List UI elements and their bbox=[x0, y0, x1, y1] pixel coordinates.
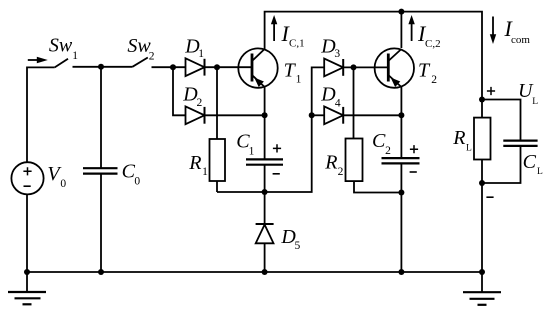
svg-text:C,2: C,2 bbox=[425, 38, 441, 50]
svg-text:D: D bbox=[320, 84, 336, 106]
node junction C0 tap bbox=[98, 64, 104, 70]
capacitor C1 bbox=[246, 158, 283, 160]
transistor T1 collector bbox=[252, 49, 265, 61]
wire riser x=353.5 to R2 bbox=[353, 67, 355, 138]
wire riser x=173 down to D2 row bbox=[173, 67, 186, 115]
node junction rail RL bbox=[479, 269, 485, 275]
svg-text:L: L bbox=[537, 167, 543, 177]
node junction D2 / T1 emitter bbox=[262, 112, 268, 118]
transistor T1 circle bbox=[238, 48, 277, 87]
arrow input current bbox=[28, 59, 38, 61]
plus C2 bbox=[410, 145, 418, 153]
node junction top rail / T2 collector bbox=[398, 9, 404, 15]
resistor RL bbox=[474, 118, 491, 160]
node junction R2 / C2 bottom bbox=[398, 190, 404, 196]
node junction rail D5 bbox=[262, 269, 268, 275]
svg-text:C: C bbox=[523, 151, 537, 173]
svg-text:1: 1 bbox=[202, 166, 208, 178]
wire R2 bottom stub bbox=[354, 181, 401, 192]
wire D4 anode from riser bbox=[312, 114, 325, 116]
wire R1 bottom stub bbox=[216, 181, 218, 192]
wire T2 collector riser bbox=[400, 12, 402, 48]
transistor T2 collector bbox=[388, 49, 401, 61]
ground left bbox=[26, 272, 28, 292]
svg-text:C,1: C,1 bbox=[289, 37, 305, 49]
node junction D4 / T2 emitter bbox=[398, 112, 404, 118]
wire Sw2 right to D1 bbox=[152, 66, 186, 68]
node junction rail C2 bbox=[398, 269, 404, 275]
svg-text:2: 2 bbox=[197, 97, 203, 109]
node junction D4 anode tap bbox=[309, 112, 315, 118]
wire D3 cathode to T2 base bbox=[343, 66, 388, 68]
transistor T1 base bar bbox=[251, 54, 254, 82]
node junction D1/R1 bbox=[214, 64, 220, 70]
transistor T1 emitter bbox=[252, 75, 265, 87]
svg-text:1: 1 bbox=[198, 48, 204, 60]
wire C2 bottom to rail bbox=[400, 163, 402, 272]
node junction RL bottom / CL bbox=[479, 180, 485, 186]
wire T2 emitter down to C2 bbox=[400, 87, 402, 158]
wire V0 bottom bbox=[26, 194, 28, 272]
svg-text:R: R bbox=[188, 152, 201, 174]
node junction RL top / CL bbox=[479, 97, 485, 103]
minus C1 bbox=[273, 173, 280, 175]
svg-text:L: L bbox=[466, 143, 472, 153]
svg-text:4: 4 bbox=[335, 98, 341, 110]
diode D3 bbox=[324, 59, 343, 77]
node junction rail V0 bbox=[24, 269, 30, 275]
svg-text:0: 0 bbox=[60, 178, 66, 190]
wire V0 top to Sw1 bbox=[27, 67, 55, 162]
wire C1 bottom to node bbox=[264, 165, 266, 192]
svg-text:R: R bbox=[324, 151, 337, 173]
minus C2 bbox=[410, 171, 417, 173]
capacitor C0 bbox=[100, 67, 102, 168]
wire D2 cathode to T1 emitter line bbox=[205, 114, 265, 116]
arrow IC2 bbox=[411, 23, 413, 42]
wire riser x=217 to R1 bbox=[216, 67, 218, 139]
svg-text:C: C bbox=[372, 130, 386, 152]
svg-text:1: 1 bbox=[296, 74, 302, 86]
wire D1 cathode to T1 base bbox=[205, 66, 253, 68]
capacitor C2 bbox=[382, 157, 420, 159]
wire Sw1 right to Sw2 bbox=[73, 66, 133, 68]
transistor T2 emitter arrow bbox=[391, 78, 401, 88]
diode D5 bbox=[256, 223, 274, 225]
diode D2 bbox=[186, 106, 205, 124]
svg-text:Sw: Sw bbox=[127, 35, 151, 57]
svg-text:Sw: Sw bbox=[49, 35, 73, 57]
svg-text:0: 0 bbox=[134, 176, 140, 188]
svg-text:T: T bbox=[418, 59, 431, 81]
minus V0 bbox=[24, 185, 31, 187]
node junction C1 bottom / D5 bbox=[262, 189, 268, 195]
plus V0 bbox=[23, 167, 31, 175]
wire top rail bbox=[265, 12, 482, 118]
diode D1 bbox=[186, 58, 205, 76]
wire RL bottom to rail bbox=[481, 160, 483, 273]
node junction rail C0 bbox=[98, 269, 104, 275]
svg-text:5: 5 bbox=[295, 240, 301, 252]
wire D5 anode to bottom rail bbox=[264, 243, 266, 272]
wire bottom bus y=192 to riser x=311.7 bbox=[217, 67, 324, 192]
capacitor CL bbox=[503, 140, 537, 142]
wire node down to D5 bbox=[264, 192, 266, 224]
node junction at x=173 bbox=[170, 64, 176, 70]
wire D4 cathode to T2 emitter line bbox=[343, 114, 401, 116]
svg-text:2: 2 bbox=[431, 74, 437, 86]
svg-text:2: 2 bbox=[385, 145, 391, 157]
svg-text:1: 1 bbox=[72, 50, 78, 62]
switch Sw2 blade bbox=[132, 58, 147, 67]
svg-text:2: 2 bbox=[149, 50, 155, 62]
wire bottom rail bbox=[27, 271, 482, 273]
transistor T2 circle bbox=[375, 48, 414, 87]
svg-text:com: com bbox=[511, 34, 530, 46]
resistor R2 bbox=[346, 139, 363, 182]
plus C1 bbox=[273, 144, 281, 152]
svg-text:R: R bbox=[452, 127, 465, 149]
svg-text:1: 1 bbox=[249, 145, 255, 157]
arrow Icom bbox=[492, 17, 494, 36]
node junction D3 / R2 bbox=[351, 64, 357, 70]
svg-text:L: L bbox=[532, 97, 538, 107]
plus RL bbox=[487, 87, 495, 95]
wire T1 emitter down to C1 bbox=[264, 87, 266, 159]
transistor T1 emitter arrow bbox=[254, 78, 264, 88]
svg-text:2: 2 bbox=[338, 166, 344, 178]
transistor T2 emitter bbox=[388, 75, 401, 87]
minus RL bbox=[486, 196, 493, 198]
ground right bbox=[481, 272, 483, 292]
resistor R1 bbox=[210, 139, 226, 181]
diode D4 bbox=[324, 106, 343, 124]
transistor T2 base bar bbox=[387, 54, 390, 82]
switch Sw1 blade bbox=[55, 59, 68, 68]
svg-text:3: 3 bbox=[334, 48, 340, 60]
arrow IC1 bbox=[273, 23, 275, 42]
wire CL branch bbox=[482, 100, 521, 184]
voltage source V0 bbox=[11, 162, 43, 194]
